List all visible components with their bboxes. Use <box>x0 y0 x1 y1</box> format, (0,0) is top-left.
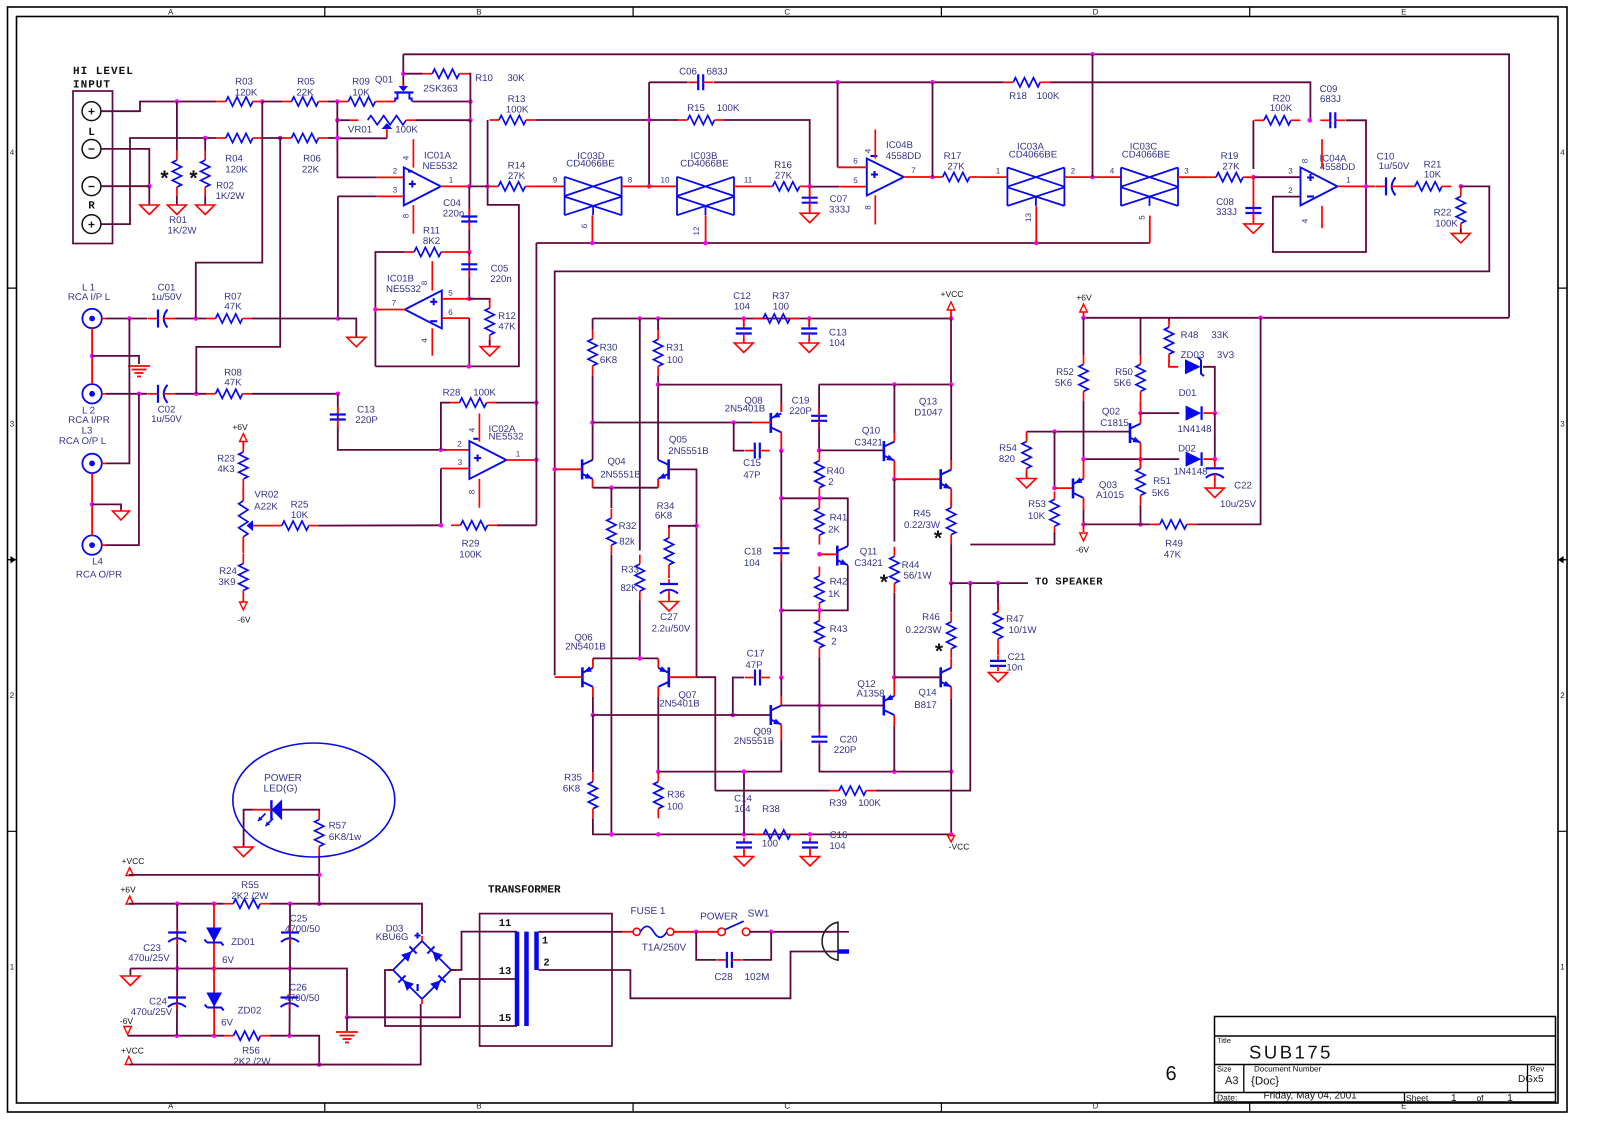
junction speaker node R47 <box>996 581 1001 586</box>
wire R51 top <box>1140 459 1142 468</box>
svg-text:*: * <box>189 167 198 190</box>
svg-text:1K/2W: 1K/2W <box>215 191 245 202</box>
svg-text:5: 5 <box>853 176 858 185</box>
ground near R07 <box>347 337 366 347</box>
svg-text:CD4066BE: CD4066BE <box>1009 150 1058 161</box>
svg-text:Q11: Q11 <box>860 547 878 558</box>
wire VR01 wiper <box>337 137 387 139</box>
wire L3 to L4 <box>91 473 93 535</box>
resistor R12 <box>485 299 494 345</box>
junction Q01 drain node <box>401 71 406 76</box>
wire Q14 base stub <box>894 676 940 678</box>
wire Q08 collector down <box>780 432 782 450</box>
resistor R29 <box>451 521 497 530</box>
wire C20 to row <box>819 746 951 772</box>
power pin 4 IC04B <box>874 130 876 159</box>
svg-text:C18: C18 <box>744 547 762 558</box>
svg-text:2N5551B: 2N5551B <box>734 736 774 747</box>
junction speaker node R45 <box>949 581 954 586</box>
wire C13b chain <box>808 319 810 327</box>
transistor Q10 C3421 <box>884 441 895 461</box>
wire bridge right to pin11 <box>450 932 517 970</box>
junction R57 VCC row <box>317 873 322 878</box>
svg-text:VR02: VR02 <box>254 490 278 501</box>
wire +6V row <box>1083 312 1085 318</box>
svg-text:13: 13 <box>499 966 512 978</box>
transistor Q11 C3421 <box>837 546 848 566</box>
wire Q03 collector <box>1083 498 1085 510</box>
connector J1 pin 2 circle <box>82 140 101 159</box>
svg-text:104: 104 <box>744 558 761 569</box>
svg-text:C26: C26 <box>289 983 307 994</box>
junction pin13 row <box>1034 241 1039 246</box>
fuse FUSE1 <box>633 926 674 937</box>
op-amp IC04B <box>867 159 904 196</box>
op-amp IC02A marks <box>474 455 481 462</box>
wire R11 to node <box>451 251 470 253</box>
wire Q03 base stub <box>1055 487 1074 489</box>
svg-text:R24: R24 <box>219 566 237 577</box>
wire IC01B pin5 stub <box>442 298 470 300</box>
wire R47 chain <box>997 583 999 609</box>
wire R28 left <box>441 403 450 450</box>
resistor R33 <box>635 555 644 601</box>
wire +6V row left <box>130 903 224 905</box>
capacitor C26 <box>281 994 299 1010</box>
junction IC03D pin8 node <box>647 184 652 189</box>
svg-text:220P: 220P <box>355 415 378 426</box>
svg-text:820: 820 <box>999 454 1016 465</box>
wire R11 left loop <box>375 252 404 366</box>
svg-text:B: B <box>476 8 481 17</box>
wire x781 vertical <box>780 451 782 678</box>
junction R04/R06 node <box>278 136 283 141</box>
svg-text:R23: R23 <box>217 454 235 465</box>
svg-text:NE5532: NE5532 <box>488 432 523 443</box>
svg-text:Q01: Q01 <box>375 75 393 86</box>
svg-text:4700/50: 4700/50 <box>284 993 320 1004</box>
op-amp IC01B marks <box>430 298 437 305</box>
svg-text:100K: 100K <box>1037 91 1060 102</box>
junction Q12 collector row <box>892 769 897 774</box>
wire -6V row right <box>270 1036 319 1065</box>
svg-text:1K/2W: 1K/2W <box>167 226 197 237</box>
svg-text:R03: R03 <box>235 77 253 88</box>
svg-text:C: C <box>784 1102 790 1111</box>
svg-text:30K: 30K <box>507 73 525 84</box>
power +VCC arrow <box>947 302 955 310</box>
svg-text:R31: R31 <box>666 343 684 354</box>
junction R28 right node <box>534 400 539 405</box>
resistor R49 <box>1150 520 1196 529</box>
wire C08 to ground <box>1252 218 1254 224</box>
wire Q09 emitter run <box>658 740 781 772</box>
svg-text:1: 1 <box>1346 176 1351 185</box>
junction Q10 collector node <box>892 382 897 387</box>
svg-text:IC01A: IC01A <box>424 151 451 162</box>
wire R35 to rail <box>593 818 951 834</box>
capacitor C15 <box>745 443 770 459</box>
capacitor C02 <box>148 385 176 403</box>
svg-text:470u/25V: 470u/25V <box>131 1007 173 1018</box>
wire R52 bottom <box>1083 401 1085 460</box>
wire riser to R01 <box>176 102 178 151</box>
wire R48 top <box>1168 318 1170 321</box>
svg-text:4: 4 <box>1560 148 1565 157</box>
svg-text:HI LEVEL: HI LEVEL <box>73 66 134 78</box>
svg-text:R51: R51 <box>1153 476 1171 487</box>
svg-text:SUB175: SUB175 <box>1249 1042 1333 1063</box>
bridge rectifier D03 KBU6G <box>388 936 456 1004</box>
svg-text:100: 100 <box>667 802 684 813</box>
wire R46 top <box>950 583 952 612</box>
wire switch to plug <box>750 931 838 933</box>
ground under C08 <box>1244 224 1263 234</box>
wire C27 to ground <box>668 595 670 602</box>
svg-text:A1358: A1358 <box>856 689 884 700</box>
svg-text:15: 15 <box>499 1013 512 1025</box>
svg-text:11: 11 <box>499 918 512 930</box>
svg-text:27K: 27K <box>775 171 793 182</box>
svg-text:1: 1 <box>1451 1093 1457 1104</box>
svg-text:R35: R35 <box>564 773 582 784</box>
wire IC04B pin6 stub <box>838 166 867 168</box>
resistor R19 <box>1207 173 1253 182</box>
ground under R12 <box>480 347 499 357</box>
wire C12 chain <box>743 319 745 327</box>
svg-text:120K: 120K <box>225 165 248 176</box>
wire Q10 base stub <box>819 449 884 451</box>
wire R09 to Q01 source <box>385 101 395 103</box>
svg-text:Q04: Q04 <box>607 457 626 468</box>
svg-text:104: 104 <box>829 338 846 349</box>
frame mid arrow left <box>8 557 15 562</box>
svg-text:10/1W: 10/1W <box>1009 625 1038 636</box>
svg-text:100: 100 <box>773 302 790 313</box>
svg-text:R52: R52 <box>1056 367 1074 378</box>
power pin 4 IC02A <box>478 414 480 442</box>
wire L3 riser <box>106 319 130 464</box>
junction R10/VR01 node <box>468 118 473 123</box>
capacitor C18 <box>773 540 789 561</box>
wire pin3 riser down <box>337 196 339 318</box>
junction speaker node R53 <box>968 581 973 586</box>
wire R06 to riser <box>328 137 337 139</box>
wire IC03A pin13 stub <box>1035 206 1037 243</box>
svg-text:470u/25V: 470u/25V <box>128 953 170 964</box>
svg-text:6K8: 6K8 <box>563 784 580 795</box>
svg-text:4: 4 <box>1301 218 1310 223</box>
wire R10 to source node <box>469 74 471 121</box>
resistor R31 <box>654 330 663 376</box>
junction R07/pin3 node <box>336 316 341 321</box>
wire Q06 base stub <box>555 676 583 678</box>
junction R32 top <box>609 485 614 490</box>
wire Q01 drain riser <box>402 54 404 87</box>
junction rail R36 <box>656 832 661 837</box>
op-amp IC01A <box>404 167 441 205</box>
svg-text:Title: Title <box>1217 1036 1231 1045</box>
ground under C16 <box>801 857 820 867</box>
wire bridge left to pin15 <box>385 970 517 1026</box>
svg-text:1: 1 <box>542 936 548 948</box>
wire Q10 collector <box>893 385 895 434</box>
resistor R41 <box>815 499 824 545</box>
wire Q06 collector run <box>592 697 594 715</box>
junction pin2/pin4 node <box>1090 175 1095 180</box>
wire node to IC04B pin5 <box>810 186 840 188</box>
wire IC01A pin2 stub <box>377 176 404 178</box>
svg-text:2SK363: 2SK363 <box>423 84 457 95</box>
svg-text:A3: A3 <box>1225 1075 1238 1087</box>
wire -6V stub <box>1083 524 1085 532</box>
capacitor C17 <box>745 670 770 686</box>
power pin 8 IC01B <box>431 261 433 291</box>
wire +6V rail row <box>1084 317 1510 319</box>
svg-text:104: 104 <box>734 302 751 313</box>
svg-text:Q13: Q13 <box>919 397 937 408</box>
svg-text:100K: 100K <box>1435 219 1458 230</box>
resistor R24 <box>239 554 248 600</box>
wire Q12 collector run <box>893 726 895 772</box>
svg-text:D: D <box>1093 8 1099 17</box>
connector J1 pin 3 circle <box>82 177 101 196</box>
resistor R21 <box>1405 182 1451 191</box>
resistor R20 <box>1254 116 1300 125</box>
svg-text:R01: R01 <box>169 215 187 226</box>
resistor R25 <box>272 521 318 530</box>
ground under C27 <box>660 602 679 612</box>
power pin 8 IC04A <box>1321 139 1323 168</box>
resistor R28 <box>450 398 496 407</box>
junction minus inputs <box>147 184 152 189</box>
transistor Q14 B817 <box>941 667 952 687</box>
svg-text:4: 4 <box>420 338 429 343</box>
wire R14 to IC03D pin9 <box>535 185 565 187</box>
junction Q12 base row node <box>817 703 822 708</box>
svg-text:100K: 100K <box>473 388 496 399</box>
wire IC01A pin3 <box>338 195 377 197</box>
svg-text:7: 7 <box>392 299 397 308</box>
svg-text:6: 6 <box>580 223 589 228</box>
wire L4 riser <box>106 394 139 545</box>
wire R02 to ground <box>204 196 206 205</box>
transistor Q12 A1358 <box>884 696 895 716</box>
svg-text:8: 8 <box>468 489 477 494</box>
junction 6V row C23 <box>175 901 180 906</box>
transistor Q08 2N5401B <box>771 413 782 433</box>
resistor R06 <box>282 133 328 142</box>
wire R20 riser <box>1252 120 1254 169</box>
svg-text:1: 1 <box>1507 1093 1513 1104</box>
wire IC04B pin5 stub <box>839 186 867 188</box>
power +VCC arrow bottom <box>125 1057 133 1065</box>
svg-text:L: L <box>88 127 95 139</box>
junction R31/Q08e row <box>656 382 661 387</box>
svg-text:R42: R42 <box>830 577 848 588</box>
svg-text:+VCC: +VCC <box>122 856 145 866</box>
power pin 4 IC01B <box>431 328 433 355</box>
svg-text:B817: B817 <box>914 700 937 711</box>
svg-text:R38: R38 <box>762 804 780 815</box>
svg-text:R40: R40 <box>827 466 845 477</box>
svg-text:C: C <box>784 8 790 17</box>
junction Q14 emitter row <box>949 769 954 774</box>
junction R33 bottom node <box>638 656 643 661</box>
svg-text:R12: R12 <box>498 311 516 322</box>
svg-text:10K: 10K <box>291 510 309 521</box>
connector L3 RCA <box>82 454 105 473</box>
ground under R01 <box>167 205 186 215</box>
junction +6V arrow node <box>1081 316 1086 321</box>
svg-text:2: 2 <box>10 691 15 700</box>
resistor R42 <box>815 567 824 613</box>
svg-text:22K: 22K <box>302 165 320 176</box>
junction row2/riser node <box>335 136 340 141</box>
svg-text:3: 3 <box>10 419 15 428</box>
svg-text:8: 8 <box>628 176 633 185</box>
AC plug <box>822 922 849 960</box>
svg-text:+VCC: +VCC <box>121 1046 144 1056</box>
svg-text:104: 104 <box>829 841 846 852</box>
svg-text:R02: R02 <box>216 181 234 192</box>
svg-text:Friday, May 04, 2001: Friday, May 04, 2001 <box>1264 1091 1358 1102</box>
resistor R46 <box>947 612 956 658</box>
svg-text:R56: R56 <box>242 1046 260 1057</box>
wire node down <box>469 120 471 186</box>
svg-text:333J: 333J <box>829 205 850 216</box>
svg-text:R28: R28 <box>443 388 461 399</box>
svg-text:CD4066BE: CD4066BE <box>1122 150 1171 161</box>
wire IC02A pin3 stub <box>441 468 470 470</box>
wire Q04 base stub <box>555 468 582 470</box>
svg-text:−: − <box>88 143 95 157</box>
svg-text:NE5532: NE5532 <box>386 284 421 295</box>
svg-text:E: E <box>1401 8 1406 17</box>
junction IC04B out node <box>930 175 935 180</box>
diode D02 1N4148 <box>1186 452 1202 466</box>
svg-text:1K: 1K <box>828 589 840 600</box>
wire Q09 base row <box>593 714 771 716</box>
transistor Q07 2N5401B <box>658 667 669 687</box>
wire IC01B loop bottom <box>375 120 519 366</box>
resistor R38 <box>754 830 800 839</box>
capacitor C14 <box>736 838 752 853</box>
svg-text:6V: 6V <box>222 955 234 966</box>
power +6V arrow <box>240 434 248 442</box>
wire pin6 to loop <box>468 318 470 366</box>
wire Q10 emitter <box>893 461 895 480</box>
svg-text:CD4066BE: CD4066BE <box>566 159 615 170</box>
svg-text:*: * <box>934 527 943 550</box>
svg-text:27K: 27K <box>1222 162 1240 173</box>
wire LED cathode <box>282 810 320 811</box>
wire R31 bottom <box>657 376 659 460</box>
wire speaker row <box>951 582 1028 584</box>
resistor R54 <box>1022 435 1031 476</box>
svg-text:4: 4 <box>402 155 411 160</box>
junction C28 left node <box>694 930 699 935</box>
svg-text:-6V: -6V <box>1076 545 1090 555</box>
resistor R13 <box>490 115 536 124</box>
wire R22 to ground <box>1460 229 1462 234</box>
wire row2 to IC01A pin2 <box>337 157 376 177</box>
wire C02 to R08 <box>176 393 207 395</box>
capacitor C05 <box>461 256 477 277</box>
wire fuse to switch <box>674 931 718 933</box>
junction L2 node <box>137 392 142 397</box>
wire R07 to pin3 riser <box>252 318 338 320</box>
wire L3/L4 gnd branch <box>92 504 121 511</box>
wire IC01B pin7 stub <box>375 309 404 311</box>
svg-text:220P: 220P <box>834 745 857 756</box>
wire C28 to switch out <box>742 932 771 960</box>
svg-text:2.2u/50V: 2.2u/50V <box>652 624 691 635</box>
svg-text:2: 2 <box>831 637 836 648</box>
svg-text:3: 3 <box>393 186 398 195</box>
svg-text:3: 3 <box>1288 167 1293 176</box>
svg-text:2: 2 <box>828 477 833 488</box>
wire to fuse <box>622 931 633 933</box>
junction R40/R41 node <box>817 496 822 501</box>
wire bus1 <box>535 243 537 525</box>
svg-text:3K9: 3K9 <box>218 577 235 588</box>
connector J1 body <box>73 91 113 244</box>
junction mid row ZD01 <box>212 966 217 971</box>
wire R34 to C27 <box>668 574 670 578</box>
resistor R02 <box>201 151 210 197</box>
resistor R04 <box>216 133 262 142</box>
transformer primary winding bar <box>515 932 520 1026</box>
wire C14 to ground <box>743 852 745 857</box>
svg-text:100K: 100K <box>1270 103 1293 114</box>
svg-text:R57: R57 <box>329 821 347 832</box>
capacitor C06 <box>688 74 713 90</box>
capacitor C21 <box>990 656 1006 671</box>
svg-text:C21: C21 <box>1008 652 1026 663</box>
svg-text:3: 3 <box>458 458 463 467</box>
svg-text:R06: R06 <box>303 154 321 165</box>
wire Q09c to Q12 base row <box>781 705 819 707</box>
svg-text:C14: C14 <box>734 794 752 805</box>
svg-text:6: 6 <box>853 157 858 166</box>
svg-text:2K: 2K <box>828 525 840 536</box>
svg-text:1: 1 <box>10 963 15 972</box>
wire ZD01 chain <box>213 904 215 969</box>
junction 6V row C25 <box>288 901 293 906</box>
wire emitter row <box>593 487 659 489</box>
resistor R30 <box>588 329 597 375</box>
wire -6V row left <box>128 1035 224 1037</box>
resistor R32 <box>607 509 616 555</box>
svg-text:5K6: 5K6 <box>1152 488 1169 499</box>
wire LED to ground <box>244 810 253 847</box>
junction rail -VCC <box>949 832 954 837</box>
wire C16 to ground <box>809 852 811 857</box>
junction D02 left node <box>1081 457 1086 462</box>
wire C22 to ground <box>1214 479 1216 489</box>
svg-text:R53: R53 <box>1028 499 1046 510</box>
ground under R54 <box>1017 479 1036 489</box>
power pin 4 IC04A <box>1321 206 1323 228</box>
capacitor C13 220P <box>330 407 346 428</box>
wire R15 right to R16 node <box>724 120 810 186</box>
svg-text:RCA O/PR: RCA O/PR <box>76 570 122 581</box>
junction L1/L2 gnd node <box>90 354 95 359</box>
svg-text:11: 11 <box>744 176 753 185</box>
bridge plus mark <box>415 933 421 939</box>
svg-text:33K: 33K <box>1211 330 1229 341</box>
